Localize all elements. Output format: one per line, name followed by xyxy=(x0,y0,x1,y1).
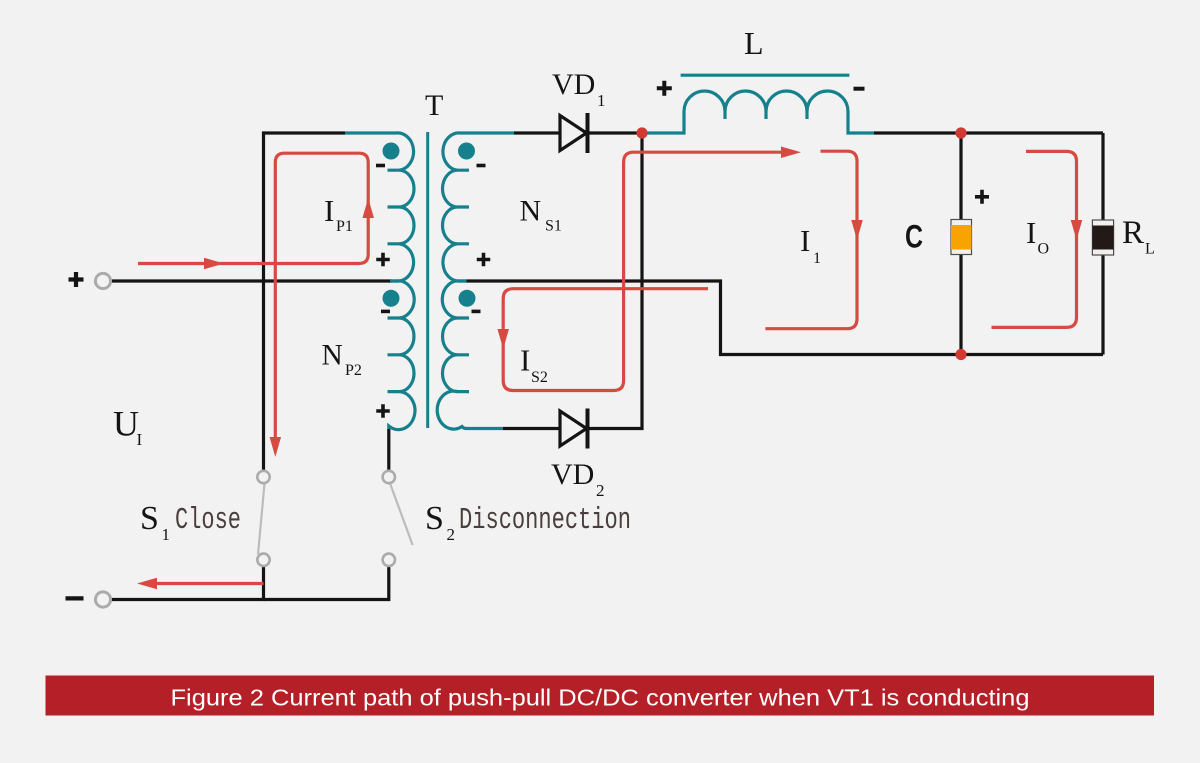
diode VD1 xyxy=(560,113,588,153)
inductor L coil xyxy=(646,91,874,133)
node VD1 output xyxy=(636,127,647,138)
svg-text:T: T xyxy=(425,89,443,122)
wire top-left: S1 branch up to top rail and right to primary N_P1 top xyxy=(264,133,346,471)
resistor RL body xyxy=(1092,220,1113,255)
minus output terminal xyxy=(66,596,84,600)
svg-text:S: S xyxy=(425,500,444,537)
switch S1 bottom terminal xyxy=(257,554,269,566)
svg-text:2: 2 xyxy=(596,481,605,500)
wire secondary N_S2 bottom to VD2 anode xyxy=(503,427,560,430)
plus capacitor xyxy=(975,190,989,204)
secondary winding N_S2 (bottom-right) xyxy=(437,281,503,429)
svg-text:Close: Close xyxy=(175,503,241,538)
svg-text:VD: VD xyxy=(552,68,595,101)
arrowhead IS2 out right xyxy=(781,146,801,158)
wire top rail from inductor to RL branch xyxy=(874,131,1103,134)
diode VD2 xyxy=(560,409,588,449)
dot marker secondary N_S2 xyxy=(459,290,476,307)
title bar xyxy=(46,676,1155,716)
svg-text:P1: P1 xyxy=(336,218,353,235)
capacitor C body xyxy=(951,220,972,255)
arrowhead return left xyxy=(137,578,157,590)
node C top xyxy=(955,127,966,138)
svg-text:R: R xyxy=(1122,215,1144,251)
svg-text:L: L xyxy=(1145,241,1155,258)
secondary winding N_S1 (top-right) xyxy=(442,133,514,281)
wire primary N_P2 bottom down to S2 xyxy=(387,429,390,471)
wire S1 bottom to minus terminal rail xyxy=(112,566,264,600)
svg-text:O: O xyxy=(1038,241,1050,258)
plus inductor left xyxy=(657,81,672,96)
svg-text:I: I xyxy=(520,343,530,378)
wire VD1 cathode to node xyxy=(588,131,647,134)
svg-text:I: I xyxy=(1026,215,1036,250)
wire S2 bottom to bottom rail xyxy=(264,566,389,600)
svg-text:N: N xyxy=(322,340,343,372)
arrowhead I1 down xyxy=(851,220,863,240)
arrowhead IS2 down xyxy=(497,329,509,349)
terminal + input xyxy=(95,273,110,288)
svg-text:S1: S1 xyxy=(545,218,562,235)
svg-text:S: S xyxy=(140,500,159,537)
svg-text:P2: P2 xyxy=(345,362,362,379)
plus N_P2 bottom xyxy=(376,404,390,418)
wire red current path IS2 spiral to output xyxy=(503,152,793,390)
arrowhead IP1 up xyxy=(362,198,374,218)
svg-text:2: 2 xyxy=(447,525,456,544)
minus N_P1 top xyxy=(376,164,385,168)
wire red return path to minus terminal xyxy=(148,582,264,585)
svg-text:Disconnection: Disconnection xyxy=(459,503,631,538)
minus inductor right xyxy=(854,87,865,91)
inductor L bar xyxy=(681,74,850,77)
arrowhead IP1 right xyxy=(204,258,224,270)
wire node down and left to VD2 cathode xyxy=(588,133,643,429)
svg-text:C: C xyxy=(905,219,923,255)
switch S2 top terminal xyxy=(383,471,395,483)
wire secondary N_S1 top to VD1 anode xyxy=(514,131,560,134)
svg-text:I: I xyxy=(137,430,143,449)
svg-text:I: I xyxy=(800,223,810,258)
svg-text:U: U xyxy=(113,403,139,443)
minus N_P2 top xyxy=(381,310,390,314)
svg-text:L: L xyxy=(744,25,764,61)
wire red current loop IO xyxy=(992,151,1077,327)
svg-text:VD: VD xyxy=(551,458,594,491)
svg-text:S2: S2 xyxy=(531,369,548,386)
wire red current loop I1 xyxy=(765,151,857,329)
primary winding N_P2 (bottom-left) xyxy=(389,281,415,430)
wire C branch vertical xyxy=(959,133,962,355)
plus input terminal xyxy=(69,272,84,287)
svg-text:1: 1 xyxy=(813,250,821,267)
switch S1 blade (closed) xyxy=(258,484,265,555)
minus N_S1 top xyxy=(477,164,486,168)
dot marker secondary N_S1 xyxy=(458,143,475,160)
dot marker primary N_P1 xyxy=(383,143,400,160)
plus N_S1 bottom xyxy=(477,253,491,267)
terminal - input xyxy=(95,592,110,607)
arrowhead IP1 down to S1 xyxy=(270,437,282,457)
wire secondary center tap right, down, bottom rail to RL xyxy=(467,281,1104,355)
svg-text:N: N xyxy=(520,195,542,228)
wire + input to primary center tap xyxy=(112,279,392,282)
plus N_P1 bottom xyxy=(376,253,390,267)
arrowhead IO down xyxy=(1071,220,1083,240)
primary winding N_P1 (top-left) xyxy=(345,133,414,281)
svg-text:1: 1 xyxy=(162,525,171,544)
dot marker primary N_P2 xyxy=(383,290,400,307)
svg-text:Figure 2 Current path of push-: Figure 2 Current path of push-pull DC/DC… xyxy=(171,685,1030,711)
switch S2 blade (open) xyxy=(390,483,413,545)
svg-text:1: 1 xyxy=(597,91,606,110)
switch S1 top terminal xyxy=(257,471,269,483)
node C bottom xyxy=(955,349,966,360)
switch S2 bottom terminal xyxy=(383,554,395,566)
svg-text:I: I xyxy=(324,193,334,228)
wire RL branch vertical xyxy=(1101,133,1104,355)
minus N_S2 top xyxy=(472,310,481,314)
transformer T core xyxy=(426,132,429,428)
wire red current path IP1 spiral (input + through primary to S1) xyxy=(138,153,368,450)
